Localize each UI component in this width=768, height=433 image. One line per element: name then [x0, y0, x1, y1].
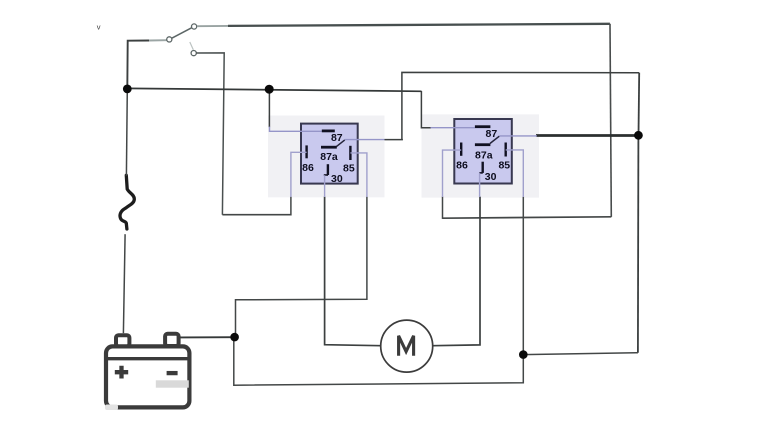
relay K1 pin 85 bar [349, 146, 351, 160]
relay K1 pin 86 stub [291, 152, 307, 197]
wire node B down to bottom rail [234, 337, 524, 385]
wire node E drop to relay K1 [268, 89, 270, 127]
relay K1 body [301, 124, 358, 184]
relay K1 background patch [268, 116, 385, 198]
wire node D up to switch pole [127, 41, 149, 90]
node C junction dot [634, 131, 643, 140]
relay K1 pin 87a bar [321, 146, 337, 149]
wire node A up over to relay K1 pin 85 [236, 197, 367, 338]
svg-text:30: 30 [485, 171, 497, 183]
battery BT1 positive terminal post [165, 334, 179, 346]
battery BT1 body [106, 346, 189, 407]
relay K2 pin 85 stub [506, 150, 524, 197]
switch S2 throw contact [191, 51, 196, 56]
wire fuse to node D [125, 89, 128, 176]
relay K2 pin 30 foot [479, 172, 482, 174]
switch S2 faint lever stub [190, 42, 194, 50]
battery BT1 corner smudge [105, 405, 118, 411]
wire drop to relay K2 [421, 91, 431, 128]
relay K1 armature [336, 140, 344, 147]
svg-text:87a: 87a [475, 150, 493, 162]
wire relay K1 pin 30 to motor left [325, 197, 381, 346]
relay K1 coil entry stub [270, 127, 322, 132]
relay K2 pin 87a bar [475, 143, 491, 146]
wire relay K1 pin 87 up and over to node C [402, 72, 639, 139]
battery BT1 minus sign [167, 371, 178, 375]
svg-text:85: 85 [343, 162, 355, 174]
wire relay K2 pin 30 to motor right [433, 197, 480, 346]
relay K1 pin 87 exit stub [345, 139, 385, 141]
relay K2 pin 87 terminal bar [475, 125, 491, 128]
relay K2 pin 86 bar [460, 143, 462, 156]
wire right drop from top rail [610, 24, 611, 217]
relay K2 pin 85 bar [505, 143, 507, 157]
svg-text:87a: 87a [320, 151, 338, 163]
relay K2 pin 86 stub [443, 150, 462, 197]
svg-text:85: 85 [498, 159, 510, 171]
wire down to node C [638, 73, 641, 136]
wire node C down right side [637, 135, 640, 352]
wire battery negative to fuse [123, 234, 125, 333]
relay K1 pin 30 bar [327, 164, 329, 175]
wire relay K1 pin 86 drop [290, 197, 292, 216]
switch S1 pole contact [167, 37, 172, 42]
relay K2 armature [490, 136, 499, 143]
battery BT1 watermark smudge [156, 380, 189, 387]
relay K1 pin 85 stub [350, 153, 367, 197]
relay K1 pin 87 terminal bar [322, 129, 335, 132]
motor M1 label [399, 336, 414, 356]
relay K2 pin 30 bar [482, 162, 484, 173]
relay K2 pin 30 stub [479, 173, 481, 197]
node D junction dot [123, 85, 132, 94]
wire relay K2 pin 87 to node C (thick) [536, 134, 638, 137]
wire node C leg to node B [523, 353, 638, 355]
relay K1 pin 30 foot [324, 174, 328, 176]
wire relay K2 pin 86 drop [442, 197, 444, 219]
wire horizontal bus from node D to relay K2 coil entry [127, 88, 421, 91]
battery BT1 negative terminal post [116, 335, 129, 346]
relay K2 coil entry stub [431, 127, 475, 129]
motor M1 body [381, 320, 433, 372]
battery BT1 top band line [105, 357, 190, 360]
svg-text:30: 30 [331, 173, 343, 185]
switch S1 throw contact [192, 24, 197, 29]
relay K2 pin 87 exit stub [499, 135, 537, 137]
svg-text:v: v [97, 23, 101, 32]
relay K2 body [454, 119, 512, 184]
wire switch S2 to drop [196, 53, 224, 215]
relay K1 wire 87 stub to riser [385, 139, 403, 141]
fusible link (squiggle) [120, 175, 134, 229]
relay K2 background patch [422, 114, 540, 197]
relay K1 pin 86 bar [305, 145, 307, 158]
wire rail to relay K1 pin 86 [222, 214, 291, 216]
wire relay K2 pin 85 down to node B [522, 197, 524, 355]
wire top rail light segment [197, 25, 228, 27]
wire switch pole stub (light) [149, 39, 167, 41]
wire battery positive to node A [181, 336, 235, 338]
svg-text:86: 86 [456, 159, 468, 171]
svg-text:86: 86 [302, 162, 314, 174]
battery BT1 plus sign [115, 366, 128, 379]
node B junction dot [519, 350, 528, 359]
wire top rail to right side [228, 24, 610, 26]
node A junction dot [230, 333, 239, 342]
wire rail to relay K2 pin 86 [443, 217, 612, 218]
node E junction dot [265, 85, 274, 94]
switch S1 lever [172, 28, 192, 39]
relay K1 pin 30 stub [324, 175, 326, 197]
